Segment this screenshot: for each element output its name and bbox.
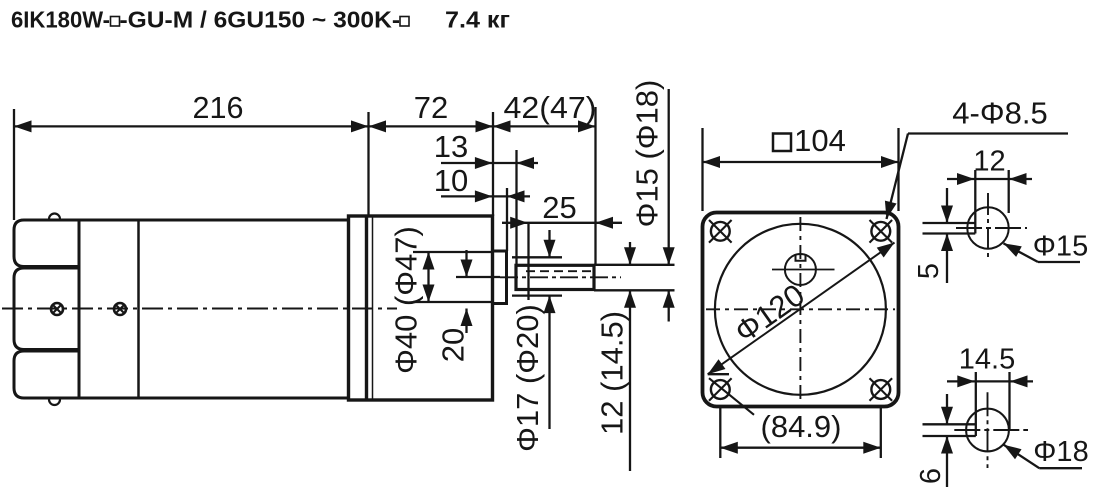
motor centerline [2,308,397,310]
output shaft [516,265,594,289]
svg-text:104: 104 [794,123,846,158]
svg-text:4-Φ8.5: 4-Φ8.5 [952,96,1047,131]
svg-text:12: 12 [973,146,1005,178]
motor rear cover segment 3 [14,351,79,398]
title text [11,7,510,33]
motor body [79,220,349,398]
gearbox flange line [365,216,368,400]
dim 5 detail [946,188,948,283]
detail15 circle [967,207,1008,248]
detail18 h-centerline [954,429,1028,431]
dim Phi40(Phi47) [413,252,492,302]
svg-text:Φ15: Φ15 [1033,231,1088,263]
svg-text:10: 10 [434,163,468,198]
dim 72 [369,112,494,216]
motor rear cover segment 2 [14,268,79,350]
phantom line top (Phi20) [512,256,562,258]
dim 6 detail [946,394,948,487]
dim 14.5 detail [947,372,1033,436]
svg-text:5: 5 [913,263,945,279]
bolt hole top-right [870,220,893,243]
dim Phi15(Phi18) [594,89,675,322]
svg-text:6IK180W-: 6IK180W- [11,7,110,33]
shaft hole keyway [796,255,806,260]
svg-text:Φ17 (Φ20): Φ17 (Φ20) [510,304,545,452]
svg-text:6: 6 [915,468,947,484]
dim (84.9) [720,408,881,458]
svg-text:42(47): 42(47) [504,90,597,125]
screw bump bottom [49,400,60,406]
dim 20 [456,250,500,333]
svg-text:14.5: 14.5 [959,344,1015,376]
gearbox body [349,216,493,400]
svg-text:13: 13 [434,129,468,164]
title square 1 [111,17,120,27]
gearbox flange thin line [372,216,374,400]
title square 2 [400,17,409,27]
phantom line bottom (Phi20) [512,294,562,296]
dim 25 [502,223,622,300]
svg-text:216: 216 [193,90,244,125]
dim 42(47) [493,107,596,265]
screw bump top [49,214,60,219]
dim 12 detail [947,170,1032,234]
svg-text:25: 25 [542,190,576,225]
flange square [703,213,899,407]
svg-text:72: 72 [414,90,448,125]
detail18 keyway [923,424,976,436]
bolt hole bottom-left [709,378,754,415]
motor body inner line [137,220,140,398]
flange horizontal centerline [706,308,895,310]
detail15 keyway [923,223,976,234]
leader Phi15 [1004,243,1081,262]
svg-text:(84.9): (84.9) [761,409,842,444]
bolt hole bottom-right [870,378,893,401]
square104 box glyph [773,134,791,152]
detail15 h-centerline [956,227,1027,229]
dim square104 [703,128,899,211]
screw S1 [51,303,63,315]
flange vertical centerline [799,217,801,403]
shaft hole crosshair [772,269,835,271]
dim 10 [441,188,530,251]
dim Phi120 diagonal [708,243,895,375]
svg-text:Φ40 (Φ47): Φ40 (Φ47) [389,226,424,374]
shaft hole [785,254,816,285]
gearcase circle [715,224,886,395]
dim 12(14.5) [629,242,631,471]
svg-text:7.4 кг: 7.4 кг [445,7,510,33]
leader 4-Phi8.5 [887,134,1069,220]
dim Phi120 tails [708,373,729,375]
dim 216 [14,109,369,220]
detail15 v-centerline [987,193,989,261]
dim 13 [441,150,538,265]
svg-text:12 (14.5): 12 (14.5) [595,311,630,435]
svg-text:Φ15 (Φ18): Φ15 (Φ18) [630,80,665,228]
detail18 circle [966,409,1009,452]
svg-text:20: 20 [436,328,471,362]
svg-text:Φ18: Φ18 [1033,436,1088,468]
shaft centerline [500,276,621,278]
shaft keyway hidden line [526,270,593,272]
leader Phi18 [1004,445,1082,469]
svg-text:-GU-M / 6GU150 ~ 300K-: -GU-M / 6GU150 ~ 300K- [120,7,401,33]
bolt hole top-left [709,220,732,243]
output boss [493,251,507,304]
motor rear cover segment 1 [14,220,79,267]
detail18 v-centerline [987,392,989,468]
dim Phi17(Phi20) [548,230,550,429]
screw S2 [114,303,126,315]
